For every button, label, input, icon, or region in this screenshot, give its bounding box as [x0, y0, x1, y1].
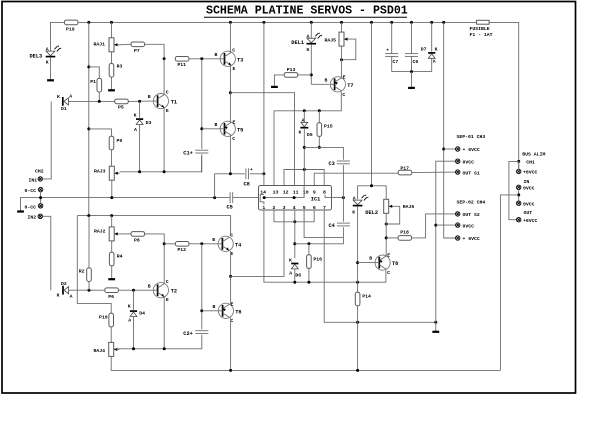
resistor P10 — [109, 313, 114, 327]
svg-text:E: E — [166, 297, 169, 303]
node BUS 0VCC tap — [517, 193, 520, 196]
node rail / IC pin14 feed — [262, 21, 265, 24]
node RAJ6 bottom — [385, 223, 388, 226]
svg-text:9: 9 — [313, 190, 316, 196]
wire BUS +6V branch — [509, 161, 519, 219]
wire RAJ4 bottom to bottom rail — [111, 356, 500, 370]
transistor T3 — [220, 51, 235, 66]
svg-text:P6: P6 — [108, 294, 114, 300]
resistor P14 — [355, 292, 360, 306]
node 0-CC rail — [39, 196, 42, 199]
wire P15 bottom — [318, 136, 320, 147]
wire T5 emitter up — [229, 93, 231, 123]
svg-text:RAJ4: RAJ4 — [94, 348, 106, 354]
svg-text:C5: C5 — [227, 204, 233, 210]
svg-text:E: E — [166, 108, 169, 114]
wire P16 top stub — [308, 244, 310, 255]
wire DEL1 node to T7 base — [311, 83, 329, 85]
node rail / D7 — [430, 21, 433, 24]
svg-text:C4: C4 — [329, 223, 336, 229]
svg-text:B: B — [212, 237, 215, 243]
node RAJ2 top — [110, 214, 113, 217]
wire P6 to T2 base — [118, 289, 153, 291]
wire y=215.6 net — [77, 216, 230, 237]
svg-text:0VCC: 0VCC — [463, 159, 475, 165]
ground below R3 — [108, 89, 115, 91]
svg-text:A: A — [70, 294, 73, 300]
node 0VCC ground — [434, 321, 437, 324]
transistor T4 — [218, 236, 233, 251]
node P16 top — [307, 242, 310, 245]
resistor P15 — [317, 123, 322, 137]
svg-text:T8: T8 — [392, 261, 398, 267]
wire P9 to RAJ3 — [111, 150, 113, 167]
wire pin4 line — [294, 210, 296, 258]
capacitor C6 — [405, 54, 418, 57]
node pin4 line crossing — [293, 220, 296, 223]
node rail / C7 — [390, 21, 393, 24]
diode D2 — [63, 286, 69, 295]
wire T4 emitter to output node — [230, 251, 232, 277]
svg-text:3: 3 — [283, 205, 286, 211]
node x=201.8 top — [200, 57, 203, 60]
node rail / DEL2 header feed — [370, 21, 373, 24]
svg-text:FUSIBLE: FUSIBLE — [470, 26, 490, 32]
wire T2 emitter down — [163, 297, 165, 349]
node D4 bottom — [132, 347, 135, 350]
wire C8 right to +V line — [250, 173, 264, 175]
wire IN2 riser — [42, 216, 50, 290]
svg-text:C2+: C2+ — [183, 331, 193, 337]
node P14 crossing — [356, 321, 359, 324]
node rail / DEL1 — [310, 21, 313, 24]
diode D5 — [300, 122, 308, 127]
svg-text:P14: P14 — [362, 294, 371, 300]
wire BUS 0VCC to bottom rail — [500, 195, 518, 371]
svg-text:P19: P19 — [66, 27, 75, 33]
wire D5 bottom — [303, 128, 305, 148]
resistor P5 — [115, 99, 129, 104]
wire 0V rail into IC1 — [233, 197, 265, 199]
svg-text:P15: P15 — [324, 123, 333, 129]
node pin8 wire on C3/C4 line — [342, 196, 345, 199]
wire P12 right to T4 base — [189, 243, 218, 245]
ground 0VCC — [432, 331, 439, 333]
svg-text:P11: P11 — [177, 62, 186, 68]
wire R4 to ground — [111, 266, 113, 279]
node 0VCC CH4 tap — [434, 224, 437, 227]
wire pin2 to pin6 — [274, 210, 314, 222]
wire T1 collector — [163, 59, 165, 95]
svg-text:OUT: OUT — [524, 210, 533, 216]
svg-text:P13: P13 — [287, 67, 296, 73]
wire DEL2 bottom to T8 base — [357, 207, 359, 293]
terminal BUS 0VCC upper — [517, 185, 521, 189]
svg-text:0VCC: 0VCC — [463, 223, 475, 229]
wire BUS 0VCC link — [518, 189, 520, 201]
svg-text:SEP-02 CH4: SEP-02 CH4 — [457, 199, 486, 205]
node T1 emitter — [163, 170, 166, 173]
node T5 base tap — [200, 127, 203, 130]
node P11 left — [163, 57, 166, 60]
wire C7 drop — [391, 22, 393, 53]
trimmer RAJ1 — [109, 38, 120, 52]
svg-text:C: C — [166, 89, 169, 95]
wire C6 ground stub — [411, 72, 413, 88]
terminal +6VCC CH4 — [456, 236, 460, 240]
svg-text:0VCC: 0VCC — [523, 186, 535, 192]
svg-text:T3: T3 — [237, 57, 243, 63]
wire P16 bottom — [308, 268, 310, 282]
wire P14 bottom to rail — [357, 306, 359, 371]
wire P11 right to T3 base — [189, 58, 220, 60]
svg-text:P16: P16 — [313, 256, 322, 262]
wire D3 riser — [139, 101, 141, 118]
svg-text:C1+: C1+ — [183, 150, 193, 156]
svg-text:A: A — [307, 33, 310, 39]
node pin10 line crossing — [303, 168, 306, 171]
wire top +V rail left segment — [51, 22, 65, 51]
svg-text:P17: P17 — [400, 165, 409, 171]
terminal +6VCC CH3 — [456, 147, 460, 151]
node C8/pin14 line — [262, 172, 265, 175]
svg-text:P1: P1 — [90, 79, 96, 85]
wire A (RAJ3 wiper to C1) — [120, 156, 202, 172]
node P14 bottom — [356, 369, 359, 372]
node D6 bottom — [293, 281, 296, 284]
trimmer RAJ2 — [109, 227, 120, 241]
wire RAJ2 top stub — [111, 216, 113, 227]
node T5 collector on wire B — [229, 172, 232, 175]
terminal BUS +6VCC top — [517, 169, 521, 173]
svg-text:D5: D5 — [307, 132, 313, 138]
svg-text:K: K — [299, 130, 302, 136]
node stage2 output — [229, 275, 232, 278]
svg-text:T6: T6 — [235, 309, 241, 315]
node RAJ5 bottom — [340, 58, 343, 61]
svg-text:C7: C7 — [393, 59, 399, 65]
wire P1 bottom — [98, 92, 100, 102]
diode D7 — [428, 53, 435, 58]
wire pin12 up / pin8 link — [284, 170, 324, 186]
svg-text:F1 - 1AT: F1 - 1AT — [470, 32, 493, 38]
wire C7 bottom — [391, 56, 393, 71]
svg-text:T7: T7 — [347, 83, 353, 89]
node C6 ground tap — [410, 70, 413, 73]
wire P9 top jog — [89, 129, 112, 137]
node R2 bottom — [88, 289, 91, 292]
wire internal pin8 exit — [325, 195, 343, 198]
svg-text:K: K — [352, 209, 355, 215]
wire P15 top stub — [318, 111, 320, 123]
resistor P19 — [64, 20, 78, 25]
node P9 tap — [87, 127, 90, 130]
svg-text:T2: T2 — [171, 289, 177, 295]
svg-text:P18: P18 — [400, 230, 409, 236]
terminal 0VCC CH4 — [456, 223, 460, 227]
svg-text:P9: P9 — [117, 138, 123, 144]
ground filter — [408, 87, 415, 89]
wire P8 to T2 collector — [145, 234, 165, 284]
svg-text:D3: D3 — [146, 120, 152, 126]
wire T7 emitter stub — [340, 77, 342, 80]
node P15 top — [318, 109, 321, 112]
svg-text:C6: C6 — [413, 59, 419, 65]
node P1 bottom — [98, 100, 101, 103]
node wire-B drop — [213, 196, 216, 199]
svg-text:C: C — [232, 47, 235, 53]
node D3 top — [138, 100, 141, 103]
wire internal hook pin1 — [260, 198, 264, 205]
wire D7 drop — [431, 22, 433, 51]
node pin4/C4 wire — [293, 242, 296, 245]
wire D6 bottom — [294, 269, 296, 282]
svg-text:SEP-01 CH3: SEP-01 CH3 — [457, 134, 486, 140]
capacitor C8 — [246, 168, 249, 179]
svg-text:P7: P7 — [134, 48, 140, 54]
svg-text:A: A — [69, 94, 72, 100]
svg-text:A: A — [289, 271, 292, 277]
node P1 tap — [87, 65, 90, 68]
node D4 top — [132, 289, 135, 292]
wire C6 bottom — [411, 56, 413, 71]
wire R2 bottom — [88, 281, 90, 290]
svg-text:K: K — [134, 112, 137, 118]
node rail / C6 — [410, 21, 413, 24]
wire D3 bottom to wire A — [139, 125, 141, 172]
transistor T6 — [218, 303, 233, 318]
svg-text:4: 4 — [293, 205, 296, 211]
svg-text:IN: IN — [524, 179, 530, 185]
svg-text:D1: D1 — [61, 106, 67, 112]
node rail / T3 collector — [229, 21, 232, 24]
node P16 bottom — [307, 281, 310, 284]
svg-text:C: C — [166, 279, 169, 285]
svg-text:IN2: IN2 — [28, 215, 37, 221]
svg-text:B: B — [369, 256, 372, 262]
svg-text:C3: C3 — [329, 161, 335, 167]
wire P7 to T1 collector node — [145, 44, 165, 59]
svg-text:K: K — [46, 60, 49, 66]
resistor R3 — [109, 64, 114, 78]
svg-text:DEL2: DEL2 — [365, 210, 378, 216]
IC1 — [259, 186, 332, 211]
node P15 bottom — [318, 146, 321, 149]
wire T6 base — [202, 310, 219, 312]
resistor R2 — [87, 268, 92, 282]
svg-text:+6VCC: +6VCC — [523, 170, 538, 176]
svg-text:T5: T5 — [237, 127, 243, 133]
node T6 base tap — [200, 309, 203, 312]
wire RAJ5 bottom to T7 emitter — [341, 46, 343, 78]
svg-text:RAJ1: RAJ1 — [94, 41, 106, 47]
wire RAJ6 wiper feedback — [386, 206, 400, 224]
svg-text:0-CC: 0-CC — [25, 204, 37, 210]
resistor P16 — [307, 255, 312, 269]
svg-text:RAJ3: RAJ3 — [94, 169, 106, 175]
resistor P17 — [398, 170, 412, 175]
svg-text:BUS ALIM: BUS ALIM — [522, 151, 545, 157]
wire T8 base — [358, 262, 375, 264]
trimmer RAJ3 — [109, 166, 120, 180]
wire DEL3 to ground — [50, 58, 52, 80]
node D3-A — [138, 170, 141, 173]
node header x371.5 — [370, 184, 373, 187]
transistor T1 — [153, 94, 168, 109]
svg-text:C: C — [232, 136, 235, 142]
wire 0VCC ground stub — [435, 322, 437, 331]
svg-text:B: B — [215, 122, 218, 128]
node x=201.8 bottom — [200, 242, 203, 245]
resistor P9 — [109, 136, 114, 150]
LED DEL1 — [310, 22, 312, 37]
wire D7 bottom — [431, 58, 433, 71]
svg-text:D6: D6 — [295, 272, 301, 278]
svg-text:C: C — [230, 232, 233, 238]
svg-text:SCHEMA PLATINE SERVOS - PSD01: SCHEMA PLATINE SERVOS - PSD01 — [206, 5, 408, 18]
node P13/DEL1 — [310, 73, 313, 76]
node stage1 output — [229, 91, 232, 94]
wire RAJ2 to R4 — [111, 241, 113, 253]
wire +6V drop x=443.7 — [444, 22, 456, 238]
svg-text:11: 11 — [293, 190, 299, 196]
svg-text:A: A — [302, 117, 305, 123]
svg-text:A: A — [128, 317, 131, 323]
svg-text:RAJ2: RAJ2 — [94, 228, 106, 234]
wire T3 emitter to out node — [229, 65, 231, 92]
wire C7/C6/D7 common — [392, 71, 432, 73]
terminal BUS 0VCC lower — [517, 201, 521, 205]
wire P12 left stub — [164, 243, 175, 245]
svg-text:K: K — [128, 304, 131, 310]
svg-text:DEL3: DEL3 — [30, 54, 43, 60]
node internal pin11 — [293, 196, 296, 199]
wire P10 to RAJ4 — [110, 327, 112, 343]
wire T5 base — [202, 128, 220, 130]
svg-text:D7: D7 — [421, 47, 427, 53]
wire D1 to P5 — [68, 100, 115, 102]
trimmer RAJ4 — [109, 342, 120, 356]
wire RAJ1 to R3 — [111, 52, 113, 64]
wire pin7 drop — [324, 210, 436, 322]
svg-text:A: A — [134, 127, 137, 133]
wire left detour to P10 — [77, 216, 111, 314]
node rail / RAJ5 — [340, 21, 343, 24]
svg-text:R4: R4 — [117, 253, 123, 259]
diode D4 — [130, 311, 137, 316]
wire 0VCC CH3 corner — [436, 161, 456, 322]
node internal pin14 — [263, 196, 266, 199]
svg-text:0-CC: 0-CC — [25, 188, 37, 194]
wire T3 collector to rail — [229, 22, 231, 52]
wire top rail right + drop to BUS — [489, 22, 519, 169]
transistor T7 — [330, 77, 345, 92]
node T6 collector bottom — [229, 369, 232, 372]
wire pin1 net — [264, 210, 386, 282]
wire C4 net to P16/pin4 — [295, 238, 344, 244]
wire +V vertical x=88.8 — [88, 22, 90, 215]
svg-text:OUT S2: OUT S2 — [463, 212, 480, 218]
svg-text:R3: R3 — [117, 64, 123, 70]
node RAJ3 bottom — [110, 196, 113, 199]
svg-text:B: B — [213, 304, 216, 310]
wire RAJ3 bottom to 0V rail — [111, 180, 113, 197]
wire BUS +6V stub — [518, 161, 520, 169]
svg-text:+6VCC: +6VCC — [523, 218, 538, 224]
node x88.8 end — [87, 214, 90, 217]
svg-text:IN1: IN1 — [29, 178, 38, 184]
ground P13 — [271, 86, 278, 88]
wire stage2 output to pin3 — [231, 207, 284, 277]
wire rail drop x=371.5 — [371, 22, 373, 185]
wire C4 bottom — [342, 227, 344, 237]
svg-text:+ 6VCC: + 6VCC — [463, 147, 480, 153]
diode D1 — [63, 97, 69, 106]
node T8 base — [356, 261, 359, 264]
resistor P18 — [398, 236, 412, 241]
svg-text:K: K — [57, 94, 60, 100]
svg-text:R2: R2 — [79, 269, 85, 275]
wire D4 riser — [133, 290, 135, 310]
terminal 0VCC CH3 — [456, 159, 460, 163]
wire P5 to T1 base — [128, 100, 153, 102]
svg-text:C: C — [342, 92, 345, 98]
wire pin5 jog — [304, 210, 343, 238]
wire pin10 up — [303, 147, 305, 185]
svg-text:0VCC: 0VCC — [523, 201, 535, 207]
wire RAJ1 top — [111, 22, 113, 38]
wire RAJ2 wiper to P8 — [120, 233, 132, 235]
wire D5 top stub — [303, 111, 305, 123]
capacitor C5 — [230, 192, 233, 203]
svg-text:12: 12 — [283, 190, 289, 196]
wire T1 emitter down — [163, 108, 165, 172]
transistor T5 — [220, 121, 235, 136]
wire T6 collector to bottom rail — [230, 317, 232, 370]
wire D2 to P6 — [69, 289, 106, 291]
svg-text:K: K — [57, 292, 60, 298]
wire internal hook pin14 — [260, 195, 264, 198]
trimmer RAJ6 — [384, 199, 395, 213]
resistor P11 — [175, 57, 189, 62]
svg-text:13: 13 — [273, 190, 279, 196]
svg-text:B: B — [215, 52, 218, 58]
svg-text:CH1: CH1 — [526, 160, 535, 166]
svg-text:CH2: CH2 — [35, 169, 44, 175]
ground below R4 — [108, 278, 115, 280]
svg-text:B: B — [148, 94, 151, 100]
wire y=147.4 to C3 — [304, 147, 343, 159]
svg-text:IC1: IC1 — [311, 197, 321, 203]
svg-text:OUT S1: OUT S1 — [463, 170, 480, 176]
wire P1 top jog — [89, 67, 100, 79]
svg-text:A: A — [433, 59, 436, 65]
svg-text:K: K — [435, 47, 438, 53]
capacitor C1 — [195, 150, 208, 153]
svg-text:RAJ5: RAJ5 — [325, 37, 337, 43]
svg-text:D2: D2 — [61, 281, 67, 287]
wire RAJ1 wiper to P7 — [120, 43, 132, 46]
svg-text:B: B — [325, 77, 328, 83]
ground below DEL3 — [47, 79, 54, 81]
resistor P12 — [175, 242, 189, 247]
LED DEL3 — [46, 46, 62, 57]
node P18 left — [385, 236, 388, 239]
wire RAJ6 bottom to T8 emitter — [385, 213, 387, 256]
svg-text:K: K — [307, 47, 310, 53]
wire DEL1 bottom — [310, 45, 312, 85]
svg-text:A: A — [46, 46, 49, 52]
